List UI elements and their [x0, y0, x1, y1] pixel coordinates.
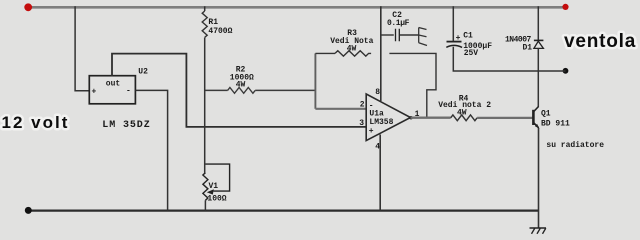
svg-text:4W: 4W: [457, 109, 467, 118]
+12V top rail: [28, 6, 566, 9]
fan - terminal (black): [563, 68, 569, 74]
svg-text:out: out: [106, 80, 121, 89]
wire R3 to output (feedback): [389, 53, 436, 116]
svg-text:8: 8: [375, 88, 380, 97]
svg-text:4W: 4W: [347, 44, 357, 53]
svg-text:-: -: [369, 102, 374, 111]
wire to op-amp pin 2: [315, 108, 366, 110]
sensor U2 LM35DZ body: [89, 76, 135, 104]
svg-text:+: +: [456, 34, 461, 43]
chassis ground (emitter): [530, 228, 547, 234]
wire pin8 to C2: [381, 34, 394, 36]
wire inverting node vertical: [314, 53, 316, 108]
svg-text:Q1: Q1: [541, 110, 551, 119]
svg-text:4700Ω: 4700Ω: [208, 27, 232, 36]
svg-text:+: +: [369, 127, 374, 136]
svg-text:25V: 25V: [464, 49, 479, 58]
wire R4 to Q1 base: [477, 117, 533, 119]
svg-text:LM 35DZ: LM 35DZ: [102, 120, 150, 131]
wire U2 - pin to ground rail: [135, 90, 167, 210]
capacitor C1 (electrolytic): [447, 41, 462, 43]
wire R1 to R2/V1 junction: [204, 38, 206, 173]
svg-text:su radiatore: su radiatore: [546, 141, 604, 150]
chassis ground (C2): [419, 28, 427, 46]
ground bottom rail: [28, 210, 539, 212]
svg-text:LM358: LM358: [369, 118, 393, 127]
wire pin 4 to ground: [379, 135, 381, 211]
Q1 base bar: [532, 110, 535, 125]
wire Q1 emitter to chassis ground: [538, 128, 540, 228]
resistor R4: [451, 115, 477, 121]
resistor R3: [335, 51, 371, 56]
supply - terminal (black): [25, 207, 32, 214]
output junction dot: [409, 116, 412, 119]
svg-text:0.1µF: 0.1µF: [387, 19, 410, 28]
op-amp U1a triangle: [366, 94, 410, 141]
wire junction to R2: [205, 89, 228, 91]
svg-text:ventola: ventola: [564, 31, 636, 52]
capacitor C2: [396, 29, 400, 42]
fan + terminal (red): [562, 4, 568, 10]
wire V1 to ground rail: [204, 200, 206, 210]
wire V+ to D1: [537, 6, 539, 40]
svg-text:3: 3: [359, 119, 364, 128]
wire op-amp output to R4: [411, 117, 451, 119]
svg-text:100Ω: 100Ω: [207, 195, 226, 204]
wire U2 out to op-amp pin 3: [112, 54, 366, 127]
diode D1 1N4007: [534, 39, 544, 41]
Q1 emitter lead with arrow: [534, 123, 539, 128]
svg-text:C1: C1: [463, 32, 473, 41]
svg-text:BD 911: BD 911: [541, 120, 570, 129]
resistor R1: [202, 11, 207, 37]
wire pin 8 to V+: [380, 6, 382, 101]
wire node to R3: [315, 52, 335, 54]
svg-text:2: 2: [360, 100, 365, 109]
svg-text:-: -: [126, 87, 131, 96]
svg-text:V1: V1: [209, 182, 219, 191]
resistor R2: [228, 88, 256, 94]
wire D1 to Q1 collector: [537, 48, 539, 107]
wire V+ to U2 + pin: [75, 6, 89, 91]
wire C1 to fan - node: [453, 47, 565, 71]
wire V+ to C1: [452, 6, 454, 41]
svg-text:12 volt: 12 volt: [2, 113, 70, 132]
wire V+ to R1: [204, 6, 206, 11]
supply + terminal (red): [24, 3, 32, 11]
transistor Q1 collector lead: [534, 107, 539, 112]
trimmer V1 resistor: [203, 173, 208, 201]
svg-text:U2: U2: [138, 68, 148, 77]
wire R2 to inverting node: [255, 89, 315, 91]
trimmer V1 box and wiper arrow: [205, 164, 229, 191]
svg-text:D1: D1: [523, 44, 533, 53]
wire C2 to chassis ground: [400, 34, 419, 36]
svg-text:4W: 4W: [236, 80, 246, 89]
svg-text:R1: R1: [208, 18, 218, 27]
svg-text:+: +: [92, 88, 97, 97]
